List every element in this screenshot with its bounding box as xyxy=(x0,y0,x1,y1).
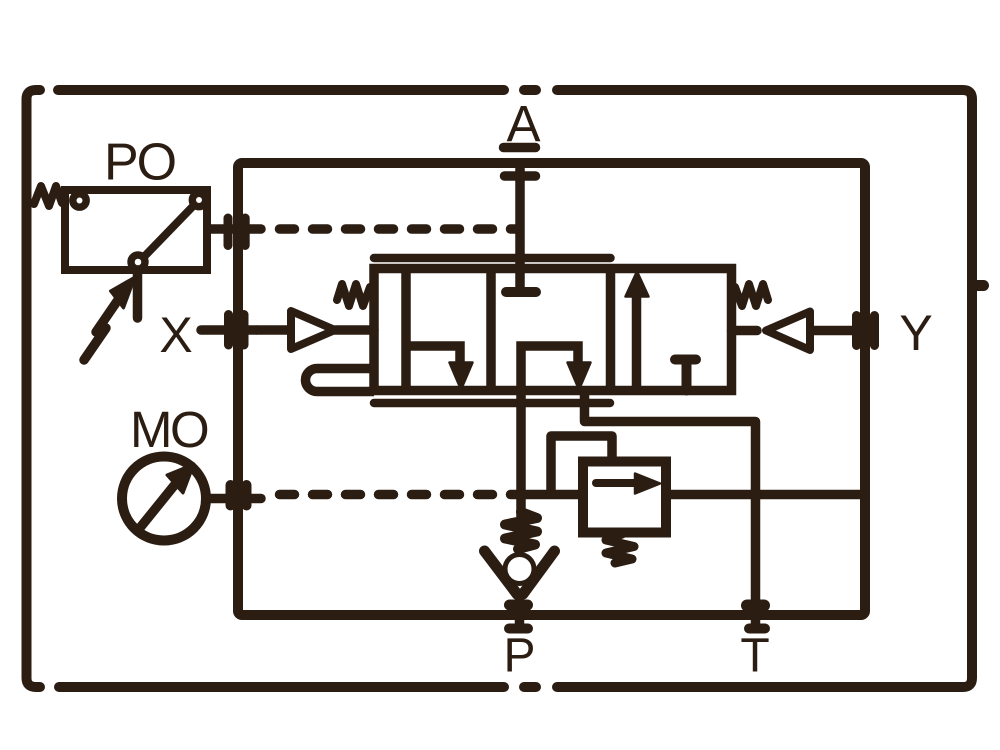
PO adjust arrow shaft xyxy=(84,297,120,360)
left position arrow head down xyxy=(450,363,473,390)
reducing valve output wire to boundary xyxy=(666,490,860,500)
middle position U-path wire xyxy=(521,346,578,391)
junction wire to reducing valve xyxy=(521,490,583,500)
valve spring right xyxy=(735,284,768,306)
left position L-path wire xyxy=(406,346,460,362)
Y pilot wire from valve xyxy=(732,326,758,336)
MO arrow shaft xyxy=(139,477,181,529)
wire valve to T port xyxy=(585,391,756,609)
PO adjust arrow head xyxy=(111,277,136,308)
svg-text:MO: MO xyxy=(130,401,208,458)
wire valve to check valve (P line) xyxy=(516,391,526,518)
blocked port T-bar in middle position xyxy=(506,287,536,297)
proportional bar top xyxy=(374,254,611,263)
divider line 3 xyxy=(606,269,616,391)
PO pivot circle top-right xyxy=(192,193,205,206)
Y port bars xyxy=(857,316,875,346)
port A marker bar xyxy=(504,143,536,153)
reducing valve spring below xyxy=(606,534,634,563)
X pilot triangle xyxy=(291,311,335,349)
wire A vertical xyxy=(515,165,525,292)
port P marker bars xyxy=(510,600,528,611)
middle position arrow head down xyxy=(568,363,591,390)
Y pilot triangle xyxy=(766,312,810,351)
main valve envelope xyxy=(374,269,732,391)
pressure reducing valve box xyxy=(583,462,666,533)
check valve spring xyxy=(505,512,537,549)
reducing valve arrow head xyxy=(635,474,660,494)
svg-text:PO: PO xyxy=(104,134,175,192)
outer boundary rectangle (dashed sections) xyxy=(27,90,984,687)
right position arrow head up xyxy=(626,272,649,297)
MO wire to boundary xyxy=(206,494,261,504)
PO pivot stem xyxy=(133,272,143,318)
right position blocked T symbol xyxy=(675,360,696,391)
X port bars xyxy=(229,315,245,346)
MO arrow head xyxy=(167,464,194,493)
port A under-bar xyxy=(505,171,536,181)
PO pivot circle top-left xyxy=(73,194,86,207)
wire triangle to valve xyxy=(335,325,374,335)
svg-text:X: X xyxy=(159,307,192,363)
valve spring left xyxy=(337,284,370,306)
pilot dashed wire PO to A-line xyxy=(280,224,517,234)
detent capsule bottom-left xyxy=(306,369,375,392)
X wire to boundary xyxy=(201,325,256,335)
PO pilot valve box xyxy=(65,190,207,270)
reducing valve arrow shaft xyxy=(596,479,640,487)
inner boundary rectangle (valve subplate) xyxy=(238,163,865,615)
right position up-arrow shaft xyxy=(632,293,642,391)
PO lever diagonal xyxy=(138,200,199,263)
MO port bars xyxy=(231,485,247,506)
divider line 2 xyxy=(486,269,496,391)
check valve seat V xyxy=(485,551,555,594)
divider line 1 xyxy=(401,269,411,391)
check valve ball xyxy=(505,555,534,584)
PO output wire xyxy=(208,224,261,234)
svg-text:A: A xyxy=(506,96,540,153)
pilot dashed wire MO to valve drain line xyxy=(280,490,517,500)
X wire to pilot triangle xyxy=(256,325,291,335)
port T marker bars xyxy=(747,600,764,612)
check valve stem to P xyxy=(515,594,525,608)
PO port bars at boundary xyxy=(228,218,245,246)
PO spring xyxy=(34,186,62,206)
proportional bar bottom xyxy=(374,399,610,408)
svg-text:P: P xyxy=(503,630,535,683)
reducing valve pilot loop xyxy=(551,436,612,494)
svg-text:Y: Y xyxy=(899,305,932,361)
MO manual override circle xyxy=(122,457,206,541)
Y wire triangle to boundary xyxy=(810,326,852,336)
dash tab on right edge xyxy=(978,280,984,291)
svg-text:T: T xyxy=(740,630,769,683)
PO pivot circle bottom xyxy=(131,255,145,269)
